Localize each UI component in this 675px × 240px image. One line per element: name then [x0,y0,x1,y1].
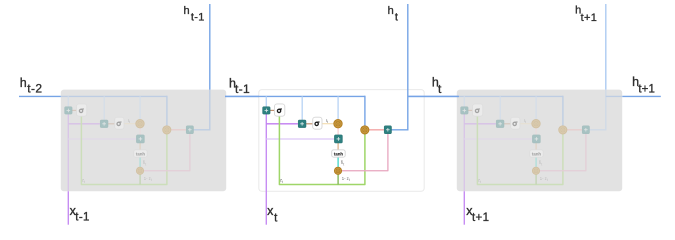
wire h branch to mult node M1 [535,96,537,120]
wire mult M2 to add S4 [368,129,384,131]
mult node M2 (z * h) [163,126,171,134]
mult node M1 (r * h) [136,120,144,128]
svg-text:x: x [267,204,274,218]
wire h input inside cell [459,95,563,97]
add node S2 (+) [298,120,306,128]
wire x branch to add node S2 [464,123,496,125]
wire z gate path (sigma B1 down, across, up to mult M2) [81,116,166,184]
wire (1-z) branch up to mult M3 [337,174,339,184]
wire h branch to add node S2 [103,96,105,120]
wire h_t+1 output tail (bright) [622,95,660,97]
mult node M1 (r * h) [334,120,342,128]
svg-text:t: t [395,11,398,23]
wire h branch to add node S1 [463,96,465,107]
add node S2 (+) [100,120,108,128]
wire h branch to add node S1 [265,96,267,107]
svg-text:h: h [20,76,27,90]
svg-text:t-1: t-1 [191,11,205,23]
wire h_t-1 to center cell (bright) [225,95,259,97]
wire (1-z) branch up to mult M3 [139,174,141,184]
wire add S3 to tanh [535,143,537,150]
add node S4 (+) output [582,126,589,134]
mult node M1 (r * h) [532,120,540,128]
mult node M3 ((1-z) * candidate) [532,167,539,174]
add node S1 (+) [263,107,271,114]
svg-text:t+1: t+1 [472,212,489,224]
wire add S1 to sigma B1 [72,109,77,111]
wire sigma B2 to mult M1 (r gate) [520,123,532,125]
tanh box [332,150,346,157]
wire z gate path (sigma B1 down, across, up to mult M2) [477,116,563,184]
wire x branch to add node S2 [266,123,298,125]
svg-text:t-1: t-1 [235,82,250,96]
svg-text:t+1: t+1 [638,83,655,95]
svg-text:t+1: t+1 [581,12,598,24]
sigma box B1 [275,104,285,116]
mult node M3 ((1-z) * candidate) [334,167,341,174]
add node S1 (+) [461,107,469,114]
wire mult M3 to add S4 (right then up) [144,134,190,171]
sigma box B2 [511,117,520,129]
wire h_t+1 tail inside cell [606,95,623,97]
wire h input inside cell [225,95,365,97]
wire h branch to mult node M1 [337,96,339,120]
wire h input turn-down into mult node M2 [562,96,564,126]
wire mult M1 down to add S3 [535,128,537,135]
svg-text:tanh: tanh [334,151,343,156]
svg-text:t-2: t-2 [27,82,42,96]
svg-text:t: t [274,212,278,224]
add node S3 (+) [532,135,540,143]
wire z gate path (sigma B1 down, across, up to mult M2) [279,116,365,184]
wire h_t output horizontal [391,129,408,131]
svg-text:t-1: t-1 [75,212,89,224]
wire h_t-1 output horizontal [193,129,210,131]
tanh box [530,150,544,157]
sigma box B2 [313,117,322,129]
wire mult M2 to add S4 [170,129,186,131]
wire x_t+1 vertical inside cell [463,114,465,191]
mult node M3 ((1-z) * candidate) [136,167,143,174]
wire x branch to add node S3 [68,138,136,140]
add node S1 (+) [65,107,73,114]
sigma box B1 [77,104,87,116]
wire x branch to add node S3 [464,138,532,140]
wire x branch to add node S3 [266,138,334,140]
mult node M2 (z * h) [361,126,369,134]
cell box (t) [259,90,424,192]
wire h_t-1 output vertical inside cell [209,90,211,131]
mult node M2 (z * h) [559,126,567,134]
wire h input (bright segment) [408,95,459,97]
wire h input (bright segment) [19,95,61,97]
wire tanh to mult M3 (candidate) [337,157,339,167]
wire mult M3 to add S4 (right then up) [540,134,586,171]
wire x_t input below cell [265,114,267,225]
wire sigma B2 to mult M1 (r gate) [124,123,136,125]
wire sigma B2 to mult M1 (r gate) [322,123,334,125]
wire add S1 to sigma B1 [468,109,473,111]
wire add S1 to sigma B1 [270,109,275,111]
wire add S2 to sigma B2 [504,123,511,125]
wire h branch to add node S2 [301,96,303,120]
add node S4 (+) output [384,126,391,134]
wire h branch to add node S1 [67,96,69,107]
svg-text:h: h [388,5,394,17]
wire tanh to mult M3 (candidate) [535,157,537,167]
wire x_t+1 input below cell [463,191,465,224]
svg-text:t: t [438,82,442,96]
wire h_t to right cell (bright) [408,95,459,97]
wire x_t-1 input below cell [67,191,69,224]
wire h input turn-down into mult node M2 [364,96,366,126]
wire (1-z) branch up to mult M3 [535,174,537,184]
wire h_t+1 output vertical inside cell [605,90,607,131]
wire x_t-1 vertical inside cell [67,114,69,191]
svg-text:h: h [184,5,190,17]
wire add S2 to sigma B2 [108,123,115,125]
dimmed cell card (t+1) [457,90,622,192]
wire h_t+1 output vertical (above cell) [605,4,607,90]
wire mult M3 to add S4 (right then up) [342,134,388,171]
wire h branch to add node S2 [499,96,501,120]
wire mult M1 down to add S3 [337,128,339,135]
wire h_t output vertical (above cell) [407,4,409,131]
wire h_t-1 output vertical (above cell) [209,4,211,90]
svg-text:tanh: tanh [136,151,145,156]
tanh box [134,150,148,157]
add node S2 (+) [496,120,504,128]
add node S3 (+) [334,135,342,143]
wire add S3 to tanh [337,143,339,150]
sigma box B2 [115,117,124,129]
wire mult M1 down to add S3 [139,128,141,135]
sigma box B1 [473,104,483,116]
dimmed cell card (t-1) [61,90,226,192]
wire h_t+1 output horizontal [589,129,606,131]
wire h input turn-down into mult node M2 [166,96,168,126]
wire add S2 to sigma B2 [306,123,313,125]
svg-text:tanh: tanh [532,151,541,156]
wire mult M2 to add S4 [566,129,582,131]
wire h input inside cell [61,95,167,97]
wire add S3 to tanh [139,143,141,150]
wire x branch to add node S2 [68,123,100,125]
add node S4 (+) output [186,126,193,134]
add node S3 (+) [136,135,144,143]
wire tanh to mult M3 (candidate) [139,157,141,167]
wire h branch to mult node M1 [139,96,141,120]
